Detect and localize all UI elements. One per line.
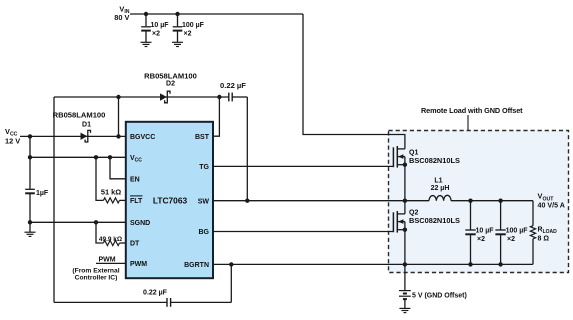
ground (battery) xyxy=(399,308,410,312)
wire EN tie xyxy=(110,157,126,179)
capacitor C2 100uF plates xyxy=(173,27,183,31)
svg-text:TG: TG xyxy=(199,164,209,171)
svg-text:RB058LAM100: RB058LAM100 xyxy=(144,71,197,80)
wire BGRTN row xyxy=(213,263,533,265)
wire SGND row xyxy=(30,221,126,223)
svg-text:SW: SW xyxy=(198,198,210,205)
svg-text:×2: ×2 xyxy=(477,236,485,243)
wire PWM input xyxy=(96,262,126,264)
resistor RLOAD xyxy=(530,226,535,239)
node SGND-49.9k xyxy=(94,220,98,224)
wire SW row xyxy=(213,200,405,202)
svg-text:100 µF: 100 µF xyxy=(182,22,205,29)
wire BGVCC node D2 row xyxy=(54,96,229,98)
svg-text:RB058LAM100: RB058LAM100 xyxy=(53,111,106,120)
svg-text:0.22 µF: 0.22 µF xyxy=(220,81,246,90)
svg-text:D2: D2 xyxy=(166,80,175,87)
svg-text:BSC082N10LS: BSC082N10LS xyxy=(409,156,460,165)
capacitor C6 100uF out plates xyxy=(495,227,528,243)
VCC label xyxy=(5,127,20,145)
svg-text:8 Ω: 8 Ω xyxy=(538,235,550,242)
capacitor C4 1uF plates xyxy=(25,189,49,197)
wire VIN top rail xyxy=(130,13,303,15)
svg-text:L1: L1 xyxy=(434,177,442,184)
node GND offset xyxy=(403,262,407,266)
svg-text:49.9 kΩ: 49.9 kΩ xyxy=(99,236,122,243)
battery stem xyxy=(404,264,406,290)
node C5 bottom xyxy=(468,262,472,266)
wire VIN down right xyxy=(303,14,405,149)
svg-text:10 µF: 10 µF xyxy=(476,227,495,234)
wire bootstrap right drop xyxy=(246,97,248,201)
wire left return vertical xyxy=(53,97,55,302)
svg-text:Controller IC): Controller IC) xyxy=(75,274,118,281)
pin FLT xyxy=(130,196,143,205)
capacitor C3 0.22uF (BST) xyxy=(220,81,246,101)
svg-text:×2: ×2 xyxy=(507,236,515,243)
capacitor C1 10uF stem xyxy=(145,14,147,26)
svg-text:51 kΩ: 51 kΩ xyxy=(101,187,121,196)
svg-text:FLT: FLT xyxy=(130,198,143,205)
wire TG row xyxy=(213,165,393,167)
svg-text:SGND: SGND xyxy=(130,220,150,227)
VOUT label xyxy=(538,192,565,210)
wire BG row xyxy=(213,231,393,233)
wire D2 to BGVCC vertical xyxy=(118,97,120,136)
ground (VIN C1) xyxy=(141,42,152,46)
node C5 top xyxy=(468,199,472,203)
node VIN-C2 xyxy=(175,12,179,16)
VIN label xyxy=(114,5,129,23)
node D2 branch top xyxy=(116,95,120,99)
wire FLT pullup xyxy=(96,157,103,200)
svg-text:PWM: PWM xyxy=(130,261,147,268)
svg-text:22 µH: 22 µH xyxy=(431,185,450,192)
svg-text:BSC082N10LS: BSC082N10LS xyxy=(409,216,460,225)
node VCC row left xyxy=(28,155,32,159)
wire VCC input row (D1 row) xyxy=(20,135,126,137)
node Q2 source dot xyxy=(403,228,407,232)
node Q1 source dot xyxy=(403,163,407,167)
node D1 cathode xyxy=(116,134,120,138)
svg-text:40 V/5 A: 40 V/5 A xyxy=(538,202,565,210)
PWM source label xyxy=(72,257,119,282)
capacitor C5 10uF out plates xyxy=(465,227,494,243)
node VIN-C1 xyxy=(144,12,148,16)
svg-text:12 V: 12 V xyxy=(5,136,20,145)
transistor Q1 BSC082N10LS xyxy=(393,146,460,201)
svg-text:5 V (GND Offset): 5 V (GND Offset) xyxy=(412,292,467,299)
node VCC-EN xyxy=(108,155,112,159)
wire VCC branch vertical with 1uF xyxy=(29,136,31,189)
capacitor C1 10uF plates xyxy=(141,27,151,31)
ground (VIN C2) xyxy=(172,42,183,46)
svg-text:DT: DT xyxy=(130,241,140,248)
wire DT resistor tie xyxy=(96,222,103,243)
svg-text:1µF: 1µF xyxy=(36,190,49,197)
svg-text:BST: BST xyxy=(195,134,210,141)
remote load dashed box xyxy=(389,131,569,273)
node C6 top xyxy=(498,199,502,203)
remote load label xyxy=(421,106,523,130)
node BGRTN junction xyxy=(229,262,233,266)
svg-text:D1: D1 xyxy=(82,122,91,129)
node SW bootstrap xyxy=(245,199,249,203)
svg-text:BG: BG xyxy=(199,229,210,236)
node SW output xyxy=(403,199,407,203)
node VCC-51k xyxy=(94,155,98,159)
transistor Q2 BSC082N10LS xyxy=(393,201,460,265)
svg-text:EN: EN xyxy=(130,177,140,184)
resistor R1 51k xyxy=(103,198,119,203)
svg-text:BGVCC: BGVCC xyxy=(130,134,155,141)
node BST junction xyxy=(217,95,221,99)
capacitor C6 100uF out stems xyxy=(500,201,502,230)
wire VOUT drop to RLOAD xyxy=(532,201,534,226)
resistor R2 49.9k xyxy=(103,240,119,245)
capacitor C2 100uF stem xyxy=(177,14,179,26)
wire BST stub and bootstrap xyxy=(213,97,219,136)
svg-text:BGRTN: BGRTN xyxy=(184,262,209,269)
inductor L1 xyxy=(429,195,451,200)
svg-text:100 µF: 100 µF xyxy=(506,227,529,234)
svg-text:×2: ×2 xyxy=(152,31,160,38)
battery B1 5V xyxy=(399,291,411,300)
node SGND left xyxy=(28,220,32,224)
wire VCC pin row xyxy=(30,156,126,158)
capacitor C5 10uF out stems xyxy=(470,201,472,230)
svg-text:LTC7063: LTC7063 xyxy=(153,195,188,205)
svg-text:80 V: 80 V xyxy=(114,13,129,22)
ground (1uF) xyxy=(25,232,36,236)
wire bottom row xyxy=(54,301,167,303)
svg-text:10 µF: 10 µF xyxy=(151,22,170,29)
wire L1 row / output row xyxy=(405,200,429,202)
capacitor C7 0.22uF (BGRTN) xyxy=(143,289,171,306)
svg-text:×2: ×2 xyxy=(184,31,192,38)
wire BGRTN drop xyxy=(230,264,232,302)
diode D1 RB058LAM100 xyxy=(53,111,106,142)
IC U1 LTC7063 xyxy=(126,122,213,278)
diode D2 RB058LAM100 xyxy=(144,71,197,102)
svg-text:0.22 µF: 0.22 µF xyxy=(143,289,168,296)
svg-text:Remote Load with GND Offset: Remote Load with GND Offset xyxy=(421,106,523,115)
node VCC input xyxy=(28,134,32,138)
node C6 bottom xyxy=(498,262,502,266)
svg-text:PWM: PWM xyxy=(98,257,115,264)
